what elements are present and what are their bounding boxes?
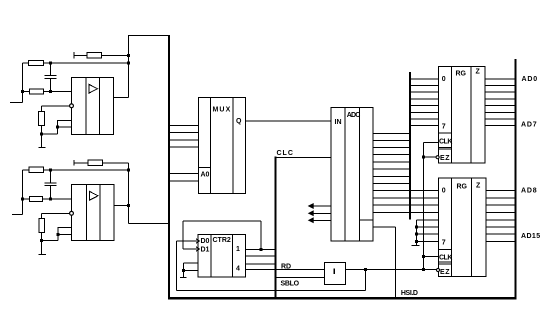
svg-text:EZ: EZ — [440, 155, 450, 162]
svg-text:AD7: AD7 — [521, 122, 537, 129]
svg-text:Z: Z — [476, 183, 481, 190]
svg-text:RD: RD — [281, 264, 291, 271]
svg-text:MUX: MUX — [213, 107, 232, 114]
svg-text:AD15: AD15 — [521, 233, 541, 240]
svg-text:7: 7 — [442, 124, 446, 131]
svg-text:0: 0 — [442, 76, 446, 83]
svg-text:CLK: CLK — [439, 255, 452, 262]
svg-text:HSI.D: HSI.D — [401, 290, 418, 297]
svg-text:RG: RG — [457, 184, 468, 191]
svg-text:AD0: AD0 — [522, 76, 538, 83]
svg-text:AD8: AD8 — [521, 188, 537, 195]
svg-text:4: 4 — [236, 266, 240, 273]
svg-text:IN: IN — [335, 119, 342, 126]
svg-text:SBLO: SBLO — [281, 281, 300, 288]
svg-text:CTR2: CTR2 — [213, 237, 231, 244]
svg-text:CLK: CLK — [439, 139, 452, 146]
svg-text:ADC: ADC — [347, 112, 361, 119]
svg-text:1: 1 — [236, 246, 240, 253]
svg-text:7: 7 — [442, 240, 446, 247]
svg-text:Z: Z — [476, 69, 481, 76]
svg-text:0: 0 — [442, 188, 446, 195]
svg-text:D0: D0 — [201, 238, 210, 245]
svg-text:RG: RG — [456, 71, 467, 78]
svg-text:CLC: CLC — [277, 150, 294, 157]
svg-text:A0: A0 — [201, 172, 210, 179]
svg-text:Q: Q — [236, 118, 242, 125]
svg-text:D1: D1 — [201, 247, 210, 254]
svg-text:EZ: EZ — [440, 269, 450, 276]
